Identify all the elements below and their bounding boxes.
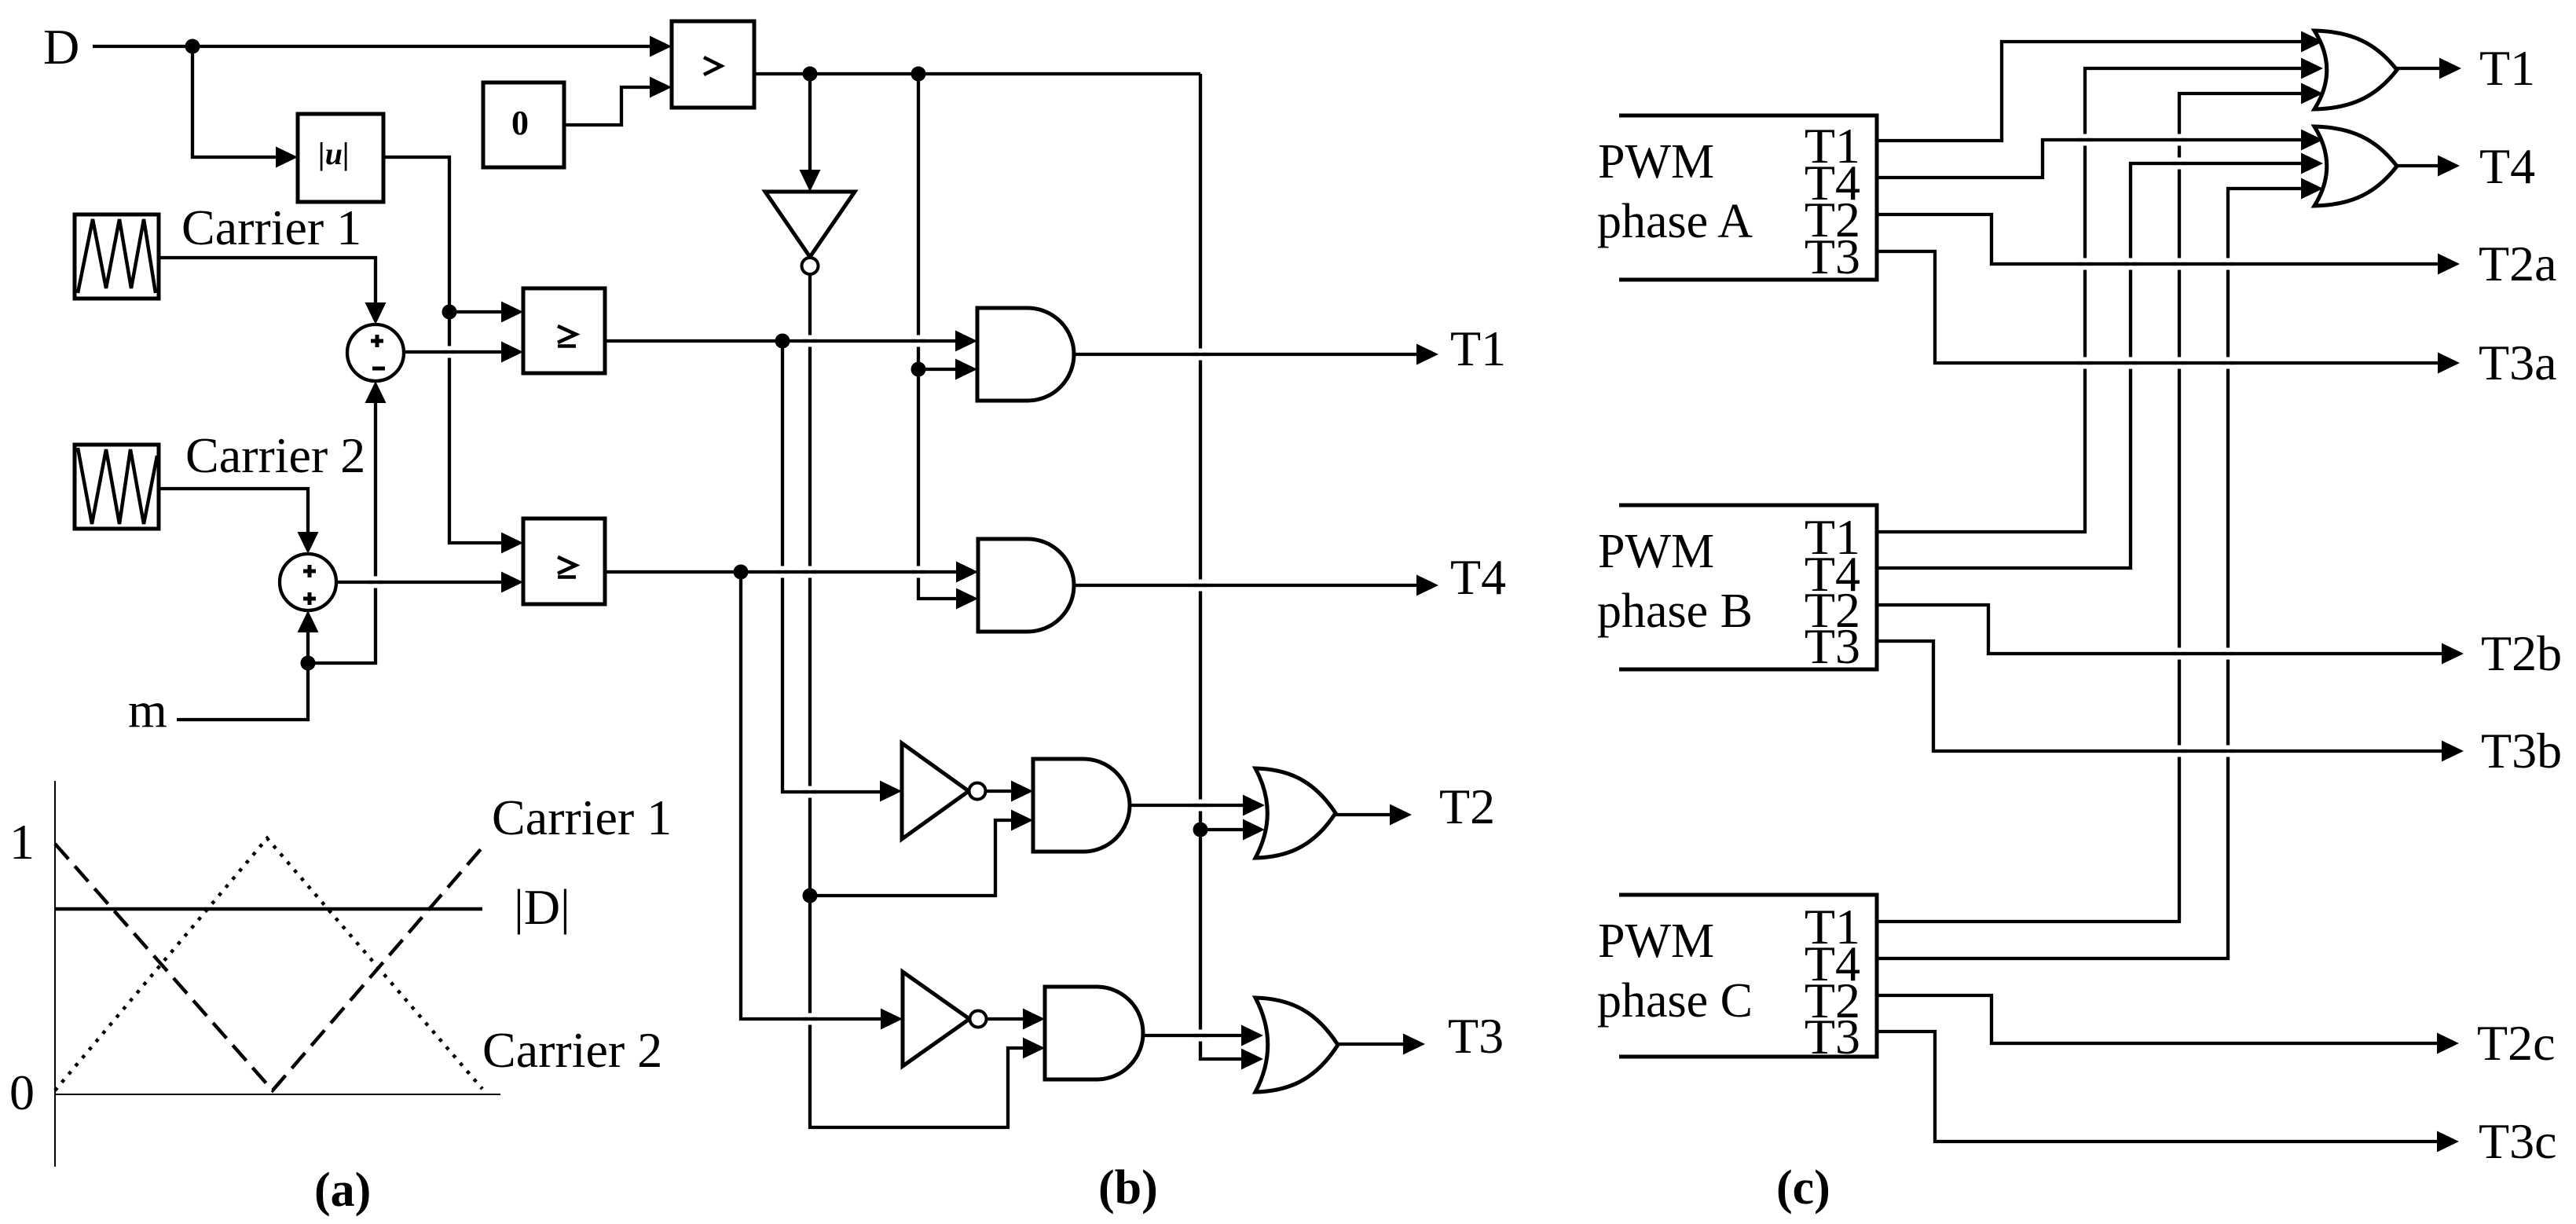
svg-text:T3: T3 [1805,1009,1860,1065]
wire crossing 12 [1193,800,1207,812]
label phase B [1597,585,1753,638]
wire AND1 to T1 [1073,353,1418,356]
svg-text:T2: T2 [1439,779,1495,834]
label (b) [1098,1161,1158,1215]
svg-text:PWM: PWM [1598,525,1714,578]
label PWM [1598,525,1714,578]
wire crossing 23 [2172,357,2186,369]
NOT gate 3 [903,972,987,1066]
wire OR1 to T2 [1334,813,1398,816]
wire ge2 output to AND2 [605,570,964,574]
junction NOT1 branch [803,889,818,903]
pin label T2 phase B [1805,582,1860,638]
arrow into OR2 input2 [1241,1049,1263,1070]
wire phaseC T4 to OR-b [1877,189,2309,958]
sum junction 1 (+/-) [347,324,404,381]
junction ge1 branch [775,334,790,349]
wire phaseA T4 to OR-b [1877,140,2309,178]
arrow T1 output [1416,344,1438,365]
AND gate 3 [1033,759,1130,852]
arrow T4 output [1416,575,1438,596]
svg-text:0: 0 [9,1065,35,1120]
wire sum1 to greater-equal 1 [404,350,509,354]
wire crossing 8 [803,786,817,798]
wire OR-b to T4 [2395,164,2446,167]
pin label T2 phase C [1805,973,1860,1028]
wire phaseB T2 out [1877,605,2450,654]
label T4 final [2479,138,2535,194]
junction long vertical to OR1 [1193,823,1208,837]
label PWM [1598,914,1714,968]
plot y-axis [54,781,56,1167]
label (c) [1776,1161,1830,1215]
wire ge1 output to AND1 [605,339,963,343]
arrow phaseC T4 into OR-b [2301,178,2323,200]
wire crossing 15 [2172,134,2186,146]
carrier 2 source block [75,445,159,529]
NOT gate 2 [902,743,986,839]
label > [704,57,721,75]
arrow ge1 into AND1 [955,331,977,352]
pin label T3 phase B [1805,618,1860,674]
svg-text:0: 0 [511,104,529,142]
wire crossing 28 [2221,746,2235,757]
svg-text:T3a: T3a [2479,335,2557,390]
label T3c [2479,1113,2557,1169]
PWM phase B block [1619,505,1877,669]
svg-text:Carrier 2: Carrier 2 [482,1022,662,1078]
svg-text:T3: T3 [1805,229,1860,284]
svg-text:T4: T4 [1450,549,1506,605]
arrow T1 final output [2439,58,2461,79]
wire branch to AND1 input2 [918,368,963,371]
wire crossing 9 [803,1013,817,1025]
relational block ge1 [523,288,605,373]
svg-text:(a): (a) [314,1164,371,1217]
label phase A [1597,195,1753,248]
arrow m into sum2 bottom [298,610,319,632]
wire crossing 16 [2172,158,2186,170]
label T1 final [2479,40,2535,96]
arrow into sum2 top [298,532,319,554]
wire phaseC T2 out [1877,995,2445,1043]
wire phaseA T2 out [1877,214,2446,264]
wire AND2 to T4 [1073,584,1418,587]
plot |D| level line [55,907,482,911]
junction D branch [185,39,200,54]
plot label 0 [9,1065,35,1120]
pin label T3 phase C [1805,1009,1860,1065]
label 0 [511,104,529,142]
wire crossing 20 [2221,258,2235,270]
label T2a [2479,236,2557,291]
junction ge2 branch [734,565,749,580]
arrow into OR1 input1 [1243,795,1265,816]
arrow into NOT2 [880,781,902,802]
svg-text:T3: T3 [1805,618,1860,674]
label T4 output [1450,549,1506,605]
wire crossing 19 [2172,258,2186,270]
wire phaseC T1 to OR-a [1877,93,2309,922]
abs block |u| [298,114,383,202]
wire phaseB T4 to OR-b [1877,163,2309,568]
wire crossing 26 [2221,648,2235,660]
arrow 0 into comparator [650,77,672,98]
label T2b [2481,625,2562,681]
plot label 1 [9,814,35,870]
wire crossing 24 [2221,357,2235,369]
svg-text:T3b: T3b [2481,723,2562,779]
label D input [43,19,79,75]
arrow into NOT1 [800,170,821,192]
junction m branch [301,656,316,671]
wire crossing 10 [1193,349,1207,361]
wire AND3 to OR1 [1129,804,1251,807]
wire long vertical from comparator [1200,74,1249,1059]
arrow into AND3 input1 [1011,781,1033,802]
wire D branch to abs [192,46,284,157]
svg-text:(b): (b) [1098,1161,1158,1215]
svg-text:T1: T1 [2479,40,2535,96]
arrow phaseB T4 into OR-b [2301,153,2323,174]
plot label |D| [514,879,570,935]
AND gate 1 (T1) [977,308,1074,401]
OR gate 1 (T2) [1255,768,1336,858]
arrow T2c output [2437,1033,2459,1054]
label ge1 [558,326,576,346]
arrow sum1 into ge1 [501,342,523,363]
arrow ge2 into AND2 [956,562,978,583]
arrow T2a output [2438,254,2460,275]
arrow into NOT3 [881,1009,903,1030]
arrow into AND2 input2 [956,588,978,610]
pin label T4 phase C [1805,936,1860,991]
pin label T4 phase B [1805,546,1860,602]
svg-text:Carrier 1: Carrier 1 [181,200,361,255]
arrow T3b output [2442,741,2464,762]
svg-text:T3: T3 [1448,1008,1504,1064]
junction comparator out to AND column [911,67,926,82]
plot carrier1 dashed curve [55,844,486,1090]
svg-text:T2c: T2c [2477,1015,2556,1071]
wire crossing 1 [442,346,456,358]
wire NOT1 output down [808,274,812,896]
plus sign sum1 [371,335,383,347]
pin label T1 phase A [1805,118,1860,174]
svg-text:T3c: T3c [2479,1113,2557,1169]
svg-text:D: D [43,19,79,75]
pin label T4 phase A [1805,155,1860,211]
wire NOT1 to AND4 input2 [810,896,1031,1127]
label ge2 [558,557,576,577]
svg-text:T2b: T2b [2481,625,2562,681]
arrow T2b output [2442,643,2464,665]
wire abs branch to ge1 [449,310,509,313]
wire ge1 branch to NOT2 [782,341,888,792]
plot x-axis [55,1094,500,1095]
sum junction 2 (+/+) [280,554,336,610]
OR gate b (T4 combine) [2314,126,2397,206]
wire 0 to comparator [564,87,658,125]
svg-text:|D|: |D| [514,879,570,935]
arrow phaseC T1 into OR-a [2301,83,2323,104]
label |u| [318,136,350,171]
wire branch to OR1 input2 [1200,828,1251,831]
arrow abs into ge2 [501,533,523,554]
pin label T1 phase B [1805,509,1860,565]
svg-text:|u|: |u| [318,136,350,171]
wire crossing 14 [2078,134,2092,146]
wire ge2 branch to NOT3 [741,572,889,1019]
wire NOT1 to AND3 input2 [810,820,1019,896]
arrow T3c output [2437,1131,2459,1153]
svg-text:T4: T4 [2479,138,2535,194]
label Carrier 1 [181,200,361,255]
NOT gate 1 (sign detector) [765,192,855,274]
wire phaseA T1 to OR-a [1877,42,2309,141]
wire crossing 3 [803,335,817,347]
arrow into OR1 input2 [1243,819,1265,841]
OR gate a (T1 combine) [2314,31,2397,109]
wire crossing 2 [368,577,383,588]
minus sign sum1 [372,367,385,371]
wire crossing 27 [2172,746,2186,757]
wire abs output [383,157,509,543]
wire crossing 13 [1193,1030,1207,1042]
arrow T2 output [1390,804,1412,826]
plot label Carrier 1 [492,790,672,845]
wire NOT2 to AND3 [985,790,1019,793]
wire phaseC T3 out [1877,1032,2445,1142]
pin label T1 phase C [1805,899,1860,955]
wire sum2 to greater-equal 2 [336,581,509,584]
wire crossing 5 [775,566,790,578]
label PWM [1598,135,1714,189]
wire NOT3 to AND4 [986,1017,1031,1021]
arrow T3a output [2438,353,2460,374]
svg-text:(c): (c) [1776,1161,1830,1215]
comparator block > [672,21,754,108]
wire comparator output [754,72,1200,75]
wire carrier2 to sum2 [159,489,308,541]
wire carrier1 to sum1 [159,258,376,311]
label phase C [1597,974,1753,1028]
relational block ge2 [523,519,605,604]
wire D to comparator [93,45,657,48]
arrow T4 final output [2438,156,2460,177]
AND gate 4 [1045,987,1143,1079]
junction sign column [911,362,926,377]
wire m branch to sum1 [308,394,376,663]
arrow into sum1 bottom [365,381,387,403]
arrow into sum1 top [365,302,387,324]
wire crossing 17 [2078,258,2092,270]
constant block 0 [483,82,564,167]
wire phaseA T3 out [1877,251,2446,363]
AND gate 2 (T4) [978,539,1074,632]
wire comparator to NOT1 [808,74,812,178]
label T3 output [1448,1008,1504,1064]
pin label T2 phase A [1805,192,1860,247]
label (a) [314,1164,371,1217]
wire crossing 25 [2172,648,2186,660]
wire AND4 to OR2 [1142,1034,1249,1037]
wire phaseB T3 out [1877,641,2450,751]
arrow into OR2 input1 [1241,1025,1263,1046]
plus sign sum2 bottom [303,592,316,605]
wire crossing 11 [1193,580,1207,592]
arrow into AND4 input2 [1023,1038,1045,1059]
arrow phaseB T1 into OR-a [2301,58,2323,79]
PWM phase A block [1619,115,1877,280]
junction abs branch [442,305,457,320]
svg-text:T1: T1 [1450,321,1506,376]
wire crossing 22 [2123,357,2138,369]
svg-text:1: 1 [9,814,35,870]
arrow abs into ge1 [501,302,523,323]
carrier 1 source block [75,214,159,299]
svg-text:T2a: T2a [2479,236,2557,291]
svg-text:PWM: PWM [1598,135,1714,189]
arrow into abs |u| [276,147,298,168]
svg-text:phase C: phase C [1597,974,1753,1028]
wire crossing 18 [2123,258,2138,270]
label T1 output [1450,321,1506,376]
svg-text:phase A: phase A [1597,195,1753,248]
wire crossing 7 [911,566,925,578]
wire OR2 to T3 [1336,1043,1411,1046]
wire crossing 4 [911,335,925,347]
arrow into AND3 input2 [1011,810,1033,831]
wire crossing 21 [2078,357,2092,369]
svg-text:Carrier 2: Carrier 2 [185,427,365,483]
arrow into AND4 input1 [1023,1009,1045,1030]
wire phaseB T1 to OR-a [1877,68,2309,532]
arrow into AND1 input2 [955,359,977,380]
arrow sum2 into ge2 [501,572,523,593]
junction comparator out to NOT1 [803,67,818,82]
PWM phase C block [1619,895,1877,1057]
svg-text:m: m [128,682,167,738]
plot carrier2 dotted curve [55,838,482,1090]
plot label Carrier 2 [482,1022,662,1078]
wire crossing 6 [803,566,817,578]
wire sign column to AND gates [918,74,964,599]
OR gate 2 (T3) [1255,998,1338,1092]
svg-text:Carrier 1: Carrier 1 [492,790,672,845]
wire m to sum2 [177,624,308,720]
arrow phaseA T4 into OR-b [2301,130,2323,151]
arrow T3 output [1403,1034,1425,1055]
svg-text:phase B: phase B [1597,585,1753,638]
label Carrier 2 [185,427,365,483]
arrow phaseA T1 into OR-a [2301,31,2323,53]
label T2 output [1439,779,1495,834]
svg-text:PWM: PWM [1598,914,1714,968]
label T2c [2477,1015,2556,1071]
wire OR-a to T1 [2395,67,2447,70]
label T3b [2481,723,2562,779]
label T3a [2479,335,2557,390]
pin label T3 phase A [1805,229,1860,284]
label m input [128,682,167,738]
arrow into comparator > [650,36,672,57]
plus sign sum2 top [303,565,316,577]
